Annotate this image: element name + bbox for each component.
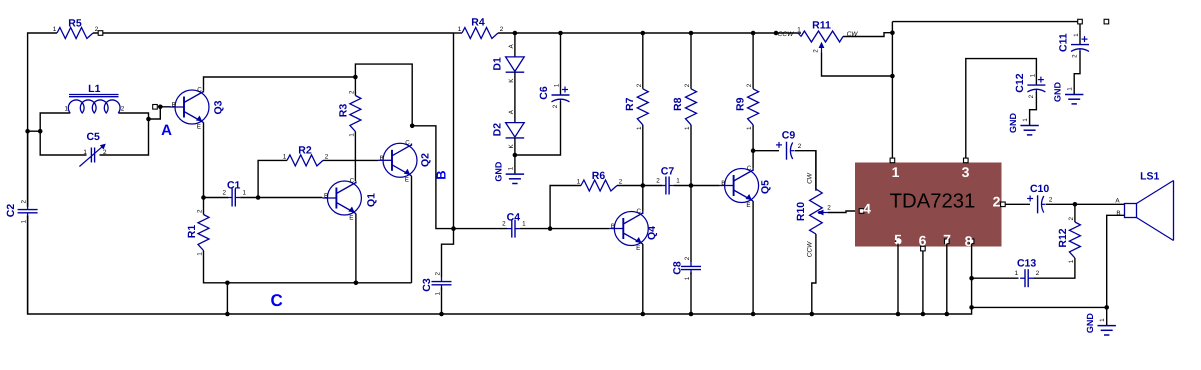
svg-text:2: 2 [619, 179, 623, 186]
svg-text:2: 2 [1068, 216, 1075, 220]
svg-text:1: 1 [507, 166, 514, 170]
svg-text:LS1: LS1 [1140, 171, 1159, 183]
svg-text:E: E [349, 214, 353, 221]
svg-text:C: C [197, 86, 202, 93]
svg-text:2: 2 [656, 177, 660, 184]
port U1 pin 1 [890, 158, 895, 163]
capacitor C5 (variable) [90, 148, 92, 163]
svg-text:GND: GND [493, 161, 503, 182]
junction R7 top [641, 31, 646, 36]
svg-text:2: 2 [21, 199, 28, 203]
wire node B horizontal [412, 126, 453, 229]
svg-text:R8: R8 [672, 97, 684, 111]
svg-text:C10: C10 [1030, 183, 1049, 195]
capacitor C6 [552, 94, 570, 96]
svg-text:2: 2 [798, 143, 802, 150]
capacitor C8 [681, 265, 701, 267]
svg-text:C8: C8 [672, 261, 684, 275]
wire C13 right lead [1033, 261, 1075, 279]
svg-text:1: 1 [892, 164, 900, 180]
svg-text:C: C [271, 291, 283, 310]
svg-text:CW: CW [807, 172, 814, 184]
junction R9/Q5c/C9 [751, 148, 756, 153]
junction R11 cw [890, 30, 895, 35]
transistor Q5 [725, 169, 759, 203]
junction R3 top [353, 75, 358, 80]
svg-text:R11: R11 [812, 20, 831, 32]
resistor R9 [748, 89, 759, 125]
svg-text:R10: R10 [795, 202, 807, 221]
wire Q4 collector [642, 186, 644, 212]
capacitor C13 [1024, 269, 1026, 287]
wire C3 bottom [441, 288, 443, 315]
potentiometer R10 [810, 189, 823, 234]
resistor R2 [287, 155, 323, 166]
junction C7/R8/C8/Q5b [689, 183, 694, 188]
svg-text:1: 1 [1015, 270, 1019, 277]
svg-text:2: 2 [197, 209, 204, 213]
resistor R3 [350, 96, 361, 132]
svg-text:1: 1 [197, 252, 204, 256]
junction small R11 left [774, 31, 779, 36]
svg-text:2: 2 [1028, 94, 1035, 98]
svg-text:R5: R5 [68, 18, 82, 30]
wire R4 left lead [454, 32, 463, 34]
wire C9 right lead [795, 151, 816, 191]
svg-text:B: B [380, 155, 384, 162]
wire C2 top lead [27, 131, 29, 207]
svg-text:D1: D1 [491, 57, 503, 71]
wire junction to C7 [643, 185, 662, 187]
wire R12 bottom lead [1074, 258, 1076, 261]
port supply 2 [1104, 19, 1109, 24]
wire C13 left lead [972, 277, 1019, 279]
svg-text:A: A [161, 122, 172, 139]
svg-text:2: 2 [325, 154, 329, 161]
junction node A [158, 105, 163, 110]
wire C8 top lead [690, 186, 692, 262]
wire R12 top lead [1074, 204, 1076, 222]
svg-text:3: 3 [962, 164, 970, 180]
svg-text:C5: C5 [86, 131, 100, 143]
svg-text:CCW: CCW [807, 241, 814, 257]
junction C8 rail [689, 312, 694, 317]
svg-text:2: 2 [636, 83, 643, 87]
svg-text:2: 2 [746, 83, 753, 87]
wire C10 to junction [1046, 203, 1075, 205]
svg-text:1: 1 [1067, 87, 1074, 91]
wire R5 to node B column [93, 32, 454, 34]
svg-text:1: 1 [522, 220, 526, 227]
wire R10 top lead is C9 line [815, 151, 817, 189]
svg-text:1: 1 [746, 126, 753, 130]
wire R8 bottom lead [690, 125, 692, 186]
wire Q3 collector up [204, 77, 356, 90]
svg-text:2: 2 [684, 256, 691, 260]
wire C2 bottom lead [28, 216, 442, 315]
wire junction up to R2 [258, 160, 287, 197]
svg-text:2: 2 [121, 106, 125, 113]
svg-text:GND: GND [1085, 313, 1095, 334]
junction R10 rail [810, 312, 815, 317]
capacitor C9 [786, 142, 788, 160]
junction D2/C6/GND [513, 153, 518, 158]
svg-text:1: 1 [1029, 73, 1036, 77]
junction wiper [890, 74, 895, 79]
junction R8 top [689, 31, 694, 36]
wire D1-D2 [514, 72, 516, 122]
svg-text:B: B [611, 223, 615, 230]
wire R4 out [498, 32, 801, 34]
svg-text:E: E [746, 202, 750, 209]
wire U1 pin8 [971, 244, 973, 308]
svg-text:L1: L1 [88, 83, 100, 95]
svg-text:B: B [324, 193, 328, 200]
wire C11 bottom lead [1074, 51, 1080, 94]
capacitor C12 [1027, 84, 1045, 86]
wire junction to Q4 base [550, 228, 609, 230]
junction Q4 emitter rail [641, 312, 646, 317]
wire tank left side [40, 113, 86, 155]
capacitor C11 [1071, 44, 1089, 46]
svg-text:2: 2 [502, 220, 506, 227]
wire LS1 B [1107, 215, 1125, 307]
svg-text:4: 4 [863, 201, 871, 217]
wire D1 anode [514, 33, 516, 57]
svg-text:Q2: Q2 [420, 153, 432, 167]
svg-text:E: E [636, 245, 640, 252]
svg-text:1: 1 [636, 126, 643, 130]
ground under C12 [1020, 125, 1038, 127]
resistor R8 [686, 89, 697, 125]
capacitor C1 [231, 189, 233, 207]
svg-text:TDA7231: TDA7231 [890, 190, 976, 212]
svg-text:C9: C9 [782, 130, 796, 142]
svg-text:2: 2 [500, 26, 504, 33]
svg-text:2: 2 [827, 205, 831, 212]
wire tank to Q3 base [149, 107, 171, 119]
ground under D2 [506, 173, 524, 175]
svg-text:R9: R9 [734, 97, 746, 111]
svg-text:1: 1 [676, 177, 680, 184]
svg-text:2: 2 [993, 194, 1001, 210]
svg-text:1: 1 [1022, 118, 1029, 122]
svg-text:Q3: Q3 [213, 100, 225, 114]
svg-text:C: C [350, 177, 355, 184]
junction R1 bottom to ground drop [225, 281, 230, 286]
svg-text:GND: GND [1053, 82, 1063, 103]
svg-text:1: 1 [348, 133, 355, 137]
svg-text:C3: C3 [421, 278, 433, 292]
wire C12 bottom lead [1030, 92, 1037, 126]
svg-text:D2: D2 [491, 123, 503, 137]
wire R11 wiper [822, 53, 893, 77]
svg-text:E: E [405, 177, 409, 184]
junction tank left [38, 129, 43, 134]
junction LS1 gnd [1104, 305, 1109, 310]
junction Q1 emitter rail [354, 281, 359, 286]
svg-text:2: 2 [1036, 270, 1040, 277]
wire C4 to junction [520, 228, 550, 230]
svg-text:1: 1 [1099, 318, 1106, 322]
transistor Q3 [175, 90, 209, 124]
wire D2 cathode [514, 138, 516, 155]
svg-text:Q4: Q4 [646, 226, 658, 240]
svg-text:C2: C2 [5, 204, 17, 218]
junction pin5 rail [896, 312, 901, 317]
svg-text:R6: R6 [592, 170, 606, 182]
wire Q5 collector [752, 151, 754, 169]
wire R3 top lead [354, 77, 356, 96]
svg-text:2: 2 [103, 149, 107, 156]
svg-text:1: 1 [684, 126, 691, 130]
port supply [1078, 19, 1083, 24]
wire R1 top lead [203, 198, 205, 215]
wire R7 top lead [642, 33, 644, 89]
diode D1 [506, 57, 525, 72]
junction pin8/C13 [969, 276, 974, 281]
svg-text:1: 1 [83, 149, 87, 156]
svg-text:1: 1 [1068, 259, 1075, 263]
port U1 pin 2 [1001, 202, 1006, 207]
wire ground drop [226, 283, 228, 314]
capacitor C4 [511, 220, 513, 238]
port U1 pin 5 [896, 239, 901, 244]
junction Q2 collector node [410, 124, 415, 129]
svg-text:1: 1 [242, 189, 246, 196]
svg-text:B: B [434, 170, 449, 179]
wire rail to tank [28, 130, 41, 132]
junction D1 top [513, 31, 518, 36]
svg-text:1: 1 [435, 291, 442, 295]
svg-text:1: 1 [65, 106, 69, 113]
resistor R12 [1069, 222, 1080, 258]
wire R11 left stub [798, 33, 801, 37]
port U1 pin 3 [964, 158, 969, 163]
wire R9 top lead [752, 33, 754, 89]
wire C6 top lead [560, 33, 562, 95]
junction tank to Q3 base [146, 117, 151, 122]
port R5.2 [98, 31, 103, 36]
wire R10 wiper to pin4 [828, 211, 859, 213]
wire pin3 column [966, 59, 1037, 159]
potentiometer R11 [801, 31, 843, 42]
wire Q3e junction to C1 [204, 197, 229, 199]
resistor R1 [198, 215, 209, 251]
svg-text:1: 1 [577, 179, 581, 186]
wire node B column [453, 33, 455, 229]
wire gnd link to LS1 [972, 306, 1107, 308]
wire C6 bottom lead [515, 102, 561, 156]
junction C1/R2/Q1b [256, 195, 261, 200]
wire R10 bottom [812, 234, 816, 314]
wire R1 bottom [204, 251, 412, 283]
junction C10/R12/LS1 [1073, 202, 1078, 207]
capacitor C2 [18, 209, 38, 211]
ground bottom right [1098, 325, 1116, 327]
resistor R4 [462, 28, 498, 39]
svg-text:GND: GND [1008, 113, 1018, 134]
junction pin7 rail [945, 312, 950, 317]
wire left vertical upper [28, 33, 57, 207]
svg-text:C: C [637, 208, 642, 215]
transistor Q4 [614, 212, 648, 246]
junction C6 top [558, 31, 563, 36]
resistor R5 [57, 28, 93, 39]
svg-text:C1: C1 [227, 180, 241, 192]
svg-text:2: 2 [1049, 197, 1053, 204]
svg-text:R1: R1 [186, 225, 198, 239]
junction left rail / tank [25, 129, 30, 134]
wire Q1 emitter down [355, 214, 357, 283]
junction R9 top [751, 31, 756, 36]
wire U1 pin7 [946, 244, 948, 314]
wire R2 to Q2 base [323, 159, 378, 161]
junction C3 on rail [439, 312, 444, 317]
wire R6 to node [617, 185, 643, 187]
junction C4/R6 [548, 226, 553, 231]
wire Q3 emitter down [203, 122, 205, 197]
wire U1 pin6 [922, 251, 924, 314]
svg-text:Q5: Q5 [760, 180, 772, 194]
svg-text:1: 1 [554, 83, 561, 87]
wire gnd stub [1106, 307, 1108, 325]
svg-text:B: B [172, 102, 176, 109]
svg-text:R7: R7 [624, 97, 636, 111]
junction R6/R7/C7/Q4c [641, 183, 646, 188]
resistor R7 [637, 89, 648, 125]
transistor Q1 [327, 181, 361, 215]
svg-text:C6: C6 [538, 86, 550, 100]
svg-text:C7: C7 [661, 166, 675, 178]
wire Q2 emitter down [411, 176, 413, 283]
svg-text:1: 1 [283, 154, 287, 161]
wire R11 cw side [843, 33, 892, 37]
svg-text:C: C [747, 165, 752, 172]
svg-text:C4: C4 [507, 212, 521, 224]
ground under C11 [1065, 94, 1083, 96]
svg-text:C13: C13 [1017, 258, 1036, 270]
svg-text:2: 2 [1072, 54, 1079, 58]
wire V+ vertical [891, 22, 893, 159]
junction node B [451, 226, 456, 231]
wire R8 top lead [690, 33, 692, 89]
wire top right rail [892, 21, 1080, 23]
wire C8 bottom lead [690, 272, 692, 314]
capacitor C7 [665, 177, 667, 195]
svg-text:2: 2 [222, 189, 226, 196]
diode D2 [506, 123, 525, 138]
svg-text:1: 1 [53, 26, 57, 33]
port node A [153, 105, 158, 110]
wire C9 left lead [753, 150, 779, 152]
svg-text:R12: R12 [1057, 228, 1069, 247]
svg-text:6: 6 [919, 233, 927, 249]
svg-text:1: 1 [458, 26, 462, 33]
wire to Q5 base [691, 185, 720, 187]
wire junction up to R6 [550, 186, 581, 229]
inductor L1 [68, 100, 120, 113]
wire R3 node up over to Q2 collector [355, 64, 412, 126]
svg-text:C11: C11 [1058, 33, 1070, 52]
wire bottom ground rail [442, 307, 972, 314]
svg-text:1: 1 [684, 276, 691, 280]
svg-text:2: 2 [348, 90, 355, 94]
svg-text:1: 1 [1073, 33, 1080, 37]
capacitor C3 [432, 281, 452, 283]
svg-text:C12: C12 [1014, 73, 1026, 92]
svg-text:R4: R4 [471, 17, 485, 29]
svg-text:2: 2 [435, 271, 442, 275]
junction pin8 bottom [969, 305, 974, 310]
wire C7 right lead [674, 185, 691, 187]
svg-text:R3: R3 [338, 104, 350, 118]
wire to LS1 A [1075, 203, 1125, 205]
wire to C3 [442, 229, 454, 277]
svg-text:B: B [721, 180, 725, 187]
wire junction to Q1 base [258, 197, 322, 199]
svg-text:E: E [197, 123, 201, 130]
svg-text:R2: R2 [298, 145, 312, 157]
wire U1 pin2 to C10 [1005, 203, 1030, 205]
capacitor C10 [1037, 195, 1039, 213]
svg-text:1: 1 [21, 219, 28, 223]
wire Q5 emitter [752, 201, 754, 314]
resistor R6 [581, 180, 617, 191]
svg-text:1: 1 [797, 27, 801, 34]
junction Q3e/C1/R1 [201, 195, 206, 200]
wire top-left rail [27, 216, 29, 314]
svg-text:2: 2 [813, 49, 820, 53]
svg-text:C: C [405, 140, 410, 147]
wire U1 pin5 [897, 244, 899, 314]
svg-text:2: 2 [684, 83, 691, 87]
svg-text:CCW: CCW [778, 31, 794, 38]
wire C1 to junction [240, 197, 258, 199]
svg-text:Q1: Q1 [366, 193, 378, 207]
wire tank right side [100, 113, 149, 155]
port U1 pin 4 [859, 209, 864, 214]
wire gnd lead [514, 155, 516, 174]
wire B to C4 [454, 228, 508, 230]
port U1 pin 8 [969, 239, 974, 244]
junction ground drop on rail [225, 312, 230, 317]
svg-text:2: 2 [552, 104, 559, 108]
wire C11 top lead [1079, 24, 1081, 45]
wire Q4 emitter [642, 244, 644, 314]
transistor Q2 [383, 143, 417, 177]
junction pin6 rail [921, 312, 926, 317]
wire R9 bottom lead [752, 125, 754, 151]
wire R3 bottom lead [354, 132, 356, 182]
port U1 pin 7 [945, 239, 950, 244]
junction Q5 emitter rail [751, 312, 756, 317]
op-amp U1 TDA7231 body [855, 163, 1002, 247]
port U1 pin 6 [921, 246, 926, 251]
wire R7 bottom lead [642, 125, 644, 186]
speaker LS1 [1125, 204, 1137, 218]
